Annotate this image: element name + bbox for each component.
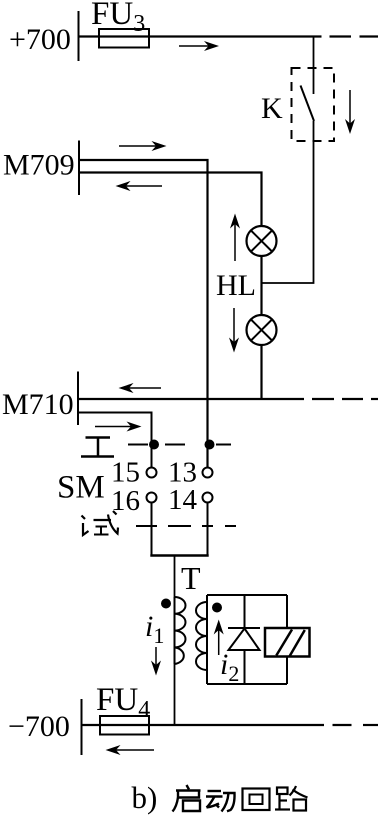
relay coil box	[265, 628, 310, 657]
current arrow above M709	[119, 141, 167, 151]
wire secondary loop right	[286, 595, 288, 684]
wire secondary loop left	[206, 595, 208, 684]
svg-text:b): b)	[132, 780, 158, 815]
svg-text:i1: i1	[145, 610, 164, 648]
current arrow on +700 bus	[179, 41, 219, 51]
arrow down beside HL2	[229, 308, 239, 353]
fuse FU4	[100, 716, 149, 735]
current arrow i2 (up)	[214, 620, 224, 656]
wire secondary loop bottom	[207, 683, 287, 685]
wire contact 14 down	[207, 503, 209, 555]
current arrow above gong	[95, 422, 142, 432]
current arrow below M709	[116, 181, 163, 191]
wire -700 bus	[82, 724, 378, 726]
contact K dashed box	[292, 68, 335, 141]
wire HL2 to M710 bus	[260, 345, 262, 399]
arrow beside K (downward)	[345, 90, 355, 134]
svg-text:15: 15	[111, 457, 140, 489]
polarity dot secondary	[212, 603, 222, 613]
caption glyph hui	[243, 789, 270, 811]
svg-text:−700: −700	[8, 710, 70, 743]
wire M710 to SM contact 15 (work feed)	[78, 413, 152, 468]
svg-text:FU3: FU3	[91, 0, 145, 37]
wire transformer primary to -700 bus	[174, 664, 176, 725]
wire secondary loop top	[207, 594, 287, 596]
wire contact 16 down	[151, 503, 153, 555]
label shi (test position glyph)	[82, 511, 119, 535]
svg-text:+700: +700	[9, 23, 71, 56]
diode VD	[228, 628, 260, 650]
contact K blade	[301, 86, 315, 122]
wire to transformer primary	[174, 556, 176, 598]
svg-text:M710: M710	[2, 388, 74, 421]
wire from contact K down to HL junction	[262, 121, 314, 283]
bus M710 terminal tick	[77, 372, 79, 426]
svg-text:K: K	[261, 92, 283, 125]
junction dot at bar over contact 13	[205, 440, 215, 450]
bus M709 terminal tick	[78, 141, 80, 196]
wire M710 bus	[78, 398, 378, 400]
svg-text:FU4: FU4	[96, 682, 150, 723]
wire from +700 bus into contact K	[313, 37, 315, 95]
svg-text:SM: SM	[57, 470, 105, 506]
wire diode branch	[244, 595, 246, 684]
wire between lamps	[260, 256, 262, 315]
svg-text:T: T	[181, 560, 201, 596]
contact 13 circle	[203, 468, 213, 478]
SM movable contact bar upper (dashed)	[128, 444, 231, 446]
transformer T secondary winding	[196, 602, 207, 670]
SM movable contact bar lower (dashed)	[136, 525, 236, 527]
fuse FU3	[99, 29, 149, 48]
svg-text:M709: M709	[3, 149, 75, 182]
contact 14 circle	[203, 493, 213, 503]
polarity dot primary	[161, 599, 171, 609]
transformer T primary winding	[175, 597, 186, 664]
contact 16 circle	[147, 493, 157, 503]
wire +700 bus	[79, 35, 378, 37]
wire SM output connector	[150, 554, 208, 557]
caption glyph qi	[173, 785, 201, 812]
caption glyph dong	[206, 791, 235, 812]
current arrow above M710 bus	[119, 383, 162, 393]
lamp HL1	[247, 226, 277, 256]
svg-text:i2: i2	[220, 648, 239, 686]
contact 15 circle	[147, 468, 157, 478]
current arrow below FU4	[106, 745, 155, 755]
bus +700 terminal tick	[78, 11, 80, 61]
current arrow i1 (down)	[151, 647, 161, 676]
caption glyph lu	[275, 786, 308, 811]
lamp HL2	[247, 315, 277, 345]
wire M709 lower branch to lamp HL1	[79, 173, 262, 227]
svg-text:14: 14	[168, 484, 198, 516]
wire M709 upper branch to SM contact 13	[79, 160, 208, 468]
svg-text:HL: HL	[216, 269, 256, 302]
label gong (work position glyph)	[81, 438, 114, 457]
junction dot at bar over contact 15	[149, 440, 159, 450]
arrow up beside HL1	[230, 214, 240, 262]
bus -700 terminal tick	[81, 699, 83, 755]
